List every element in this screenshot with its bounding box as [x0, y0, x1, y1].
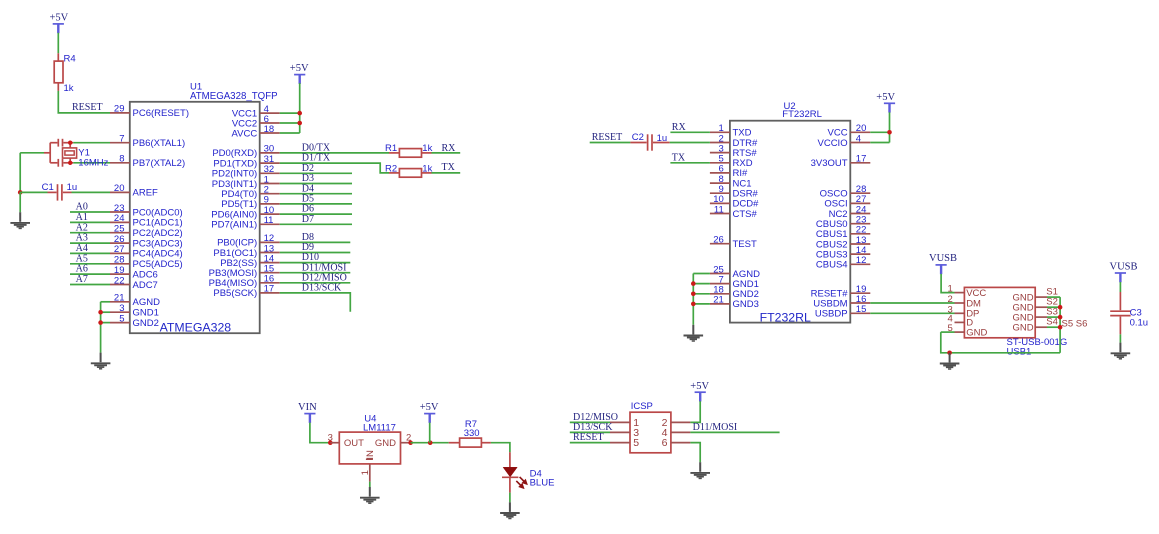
svg-text:BLUE: BLUE — [530, 477, 555, 488]
net label TX (U2) — [672, 152, 686, 163]
wire net D11/MOSI — [280, 272, 351, 274]
U2 pin 14 CBUS3 — [816, 245, 870, 261]
svg-text:5: 5 — [633, 437, 639, 449]
U1 pin 6 VCC2 — [232, 114, 280, 130]
svg-text:3: 3 — [119, 303, 124, 314]
USB1 pin 3 DP — [948, 304, 980, 319]
wire net D6 — [280, 213, 352, 215]
ICSP pins 3/4 — [610, 427, 690, 439]
net label D10 — [302, 252, 319, 263]
svg-text:23: 23 — [114, 203, 125, 214]
wire net A2 — [70, 232, 110, 234]
svg-text:1k: 1k — [422, 164, 432, 175]
wire RESET net R4 to PC6 — [58, 91, 110, 113]
U2 pin 12 CBUS4 — [816, 255, 870, 271]
ground (D4) — [500, 502, 520, 518]
junction GND2 — [98, 320, 103, 325]
wire USB1 GND pin — [941, 331, 955, 333]
svg-text:PB5(SCK): PB5(SCK) — [213, 288, 257, 299]
wire net D2 — [280, 172, 352, 174]
wire crystal gnd tap — [20, 152, 44, 154]
U4 pin 1 IN — [360, 464, 371, 482]
net label A1 — [76, 212, 88, 223]
wire net D11/MOSI (ICSP) — [690, 431, 779, 433]
net label RESET — [72, 102, 103, 113]
USB1 pin 2 DM — [948, 294, 982, 309]
svg-text:AREF: AREF — [133, 188, 159, 199]
net label D4 — [302, 183, 314, 194]
U1 pin 8 PB7(XTAL2) — [110, 154, 185, 170]
wire VCC U2 — [870, 131, 889, 133]
wire net A3 — [70, 242, 110, 244]
svg-text:C2: C2 — [632, 132, 644, 143]
U1 pin 7 PB6(XTAL1) — [110, 134, 185, 150]
svg-text:FT232RL: FT232RL — [782, 109, 822, 120]
net label D9 — [302, 242, 314, 253]
svg-text:GND: GND — [375, 438, 396, 449]
power VUSB (USB1) — [929, 253, 957, 274]
wire net A7 — [70, 284, 110, 286]
ground (U1) — [91, 353, 111, 369]
net label D1/TX — [302, 153, 331, 164]
wire net RX (U2 side) — [670, 131, 710, 133]
net label D11/MOSI — [302, 262, 347, 273]
svg-text:+5V: +5V — [876, 92, 895, 103]
wire shield bus vertical — [1059, 297, 1061, 353]
U1 pin 14 PB2(SS) — [220, 253, 279, 269]
svg-text:3V3OUT: 3V3OUT — [811, 158, 848, 169]
junction C1-gnd node — [18, 190, 23, 195]
ICSP pins 1/2 — [610, 417, 690, 429]
U1 pin 26 PC3(ADC3) — [110, 234, 183, 250]
junction U2 GND2 — [691, 292, 696, 297]
wire net D9 — [280, 252, 351, 254]
net label RX — [442, 143, 457, 154]
wire net A4 — [70, 252, 110, 254]
junction USB gnd — [947, 351, 952, 356]
svg-text:1k: 1k — [64, 83, 74, 94]
wire AVCC — [280, 132, 300, 134]
U4 pin 3 OUT — [328, 433, 340, 444]
svg-text:IN: IN — [365, 450, 376, 460]
U1 pin 24 PC1(ADC1) — [110, 213, 183, 229]
svg-text:ATMEGA328_TQFP: ATMEGA328_TQFP — [190, 91, 278, 102]
net label A0 — [76, 202, 88, 213]
wire U2 GND2 — [693, 293, 710, 295]
svg-text:11: 11 — [714, 204, 724, 215]
wire S3 to shield bus — [1047, 316, 1060, 318]
wire R7 to LED — [491, 443, 510, 453]
wire XTAL2 net — [73, 162, 110, 164]
svg-text:OUT: OUT — [344, 438, 364, 449]
U2 pin 1 TXD — [710, 123, 752, 139]
net label D13/SCK (ICSP) — [573, 422, 613, 433]
svg-text:RESET: RESET — [573, 432, 604, 443]
svg-text:R2: R2 — [385, 164, 397, 175]
U1 pin 27 PC4(ADC4) — [110, 244, 183, 260]
U2 pin 7 GND1 — [710, 274, 759, 290]
wire VCCIO U2 — [870, 142, 889, 144]
svg-text:AVCC: AVCC — [231, 128, 257, 139]
svg-text:RX: RX — [442, 143, 457, 154]
net label RESET (C2) — [592, 132, 623, 143]
wire net A6 — [70, 273, 110, 275]
wire net D7 — [280, 223, 352, 225]
svg-text:ATMEGA328: ATMEGA328 — [160, 321, 232, 335]
net label D12/MISO — [302, 272, 347, 283]
svg-text:R4: R4 — [64, 54, 76, 65]
wire net TX (U1 side) — [432, 172, 461, 174]
svg-text:D11/MOSI: D11/MOSI — [693, 422, 738, 433]
wire C1 to AREF — [72, 191, 111, 193]
U2 pin 23 CBUS0 — [816, 215, 870, 231]
resistor R7 330 — [449, 419, 491, 447]
wire net A0 — [70, 211, 110, 213]
svg-text:PB6(XTAL1): PB6(XTAL1) — [133, 138, 186, 149]
svg-text:CBUS4: CBUS4 — [816, 260, 848, 271]
svg-text:VCCIO: VCCIO — [818, 138, 848, 149]
junction U2 GND3 — [691, 302, 696, 307]
U1 pin 20 AREF — [110, 183, 158, 199]
wire net D3 — [280, 183, 352, 185]
net label D12/MISO — [573, 412, 618, 423]
svg-text:A2: A2 — [76, 222, 88, 233]
U2 pin 15 USBDP — [815, 304, 870, 320]
svg-text:GND3: GND3 — [733, 299, 759, 310]
svg-text:GND2: GND2 — [133, 318, 159, 329]
net label D11/MOSI — [693, 422, 738, 433]
USB1 shield pin S4 — [1012, 317, 1057, 334]
junction U2 GND1 — [691, 281, 696, 286]
svg-text:TX: TX — [672, 152, 686, 163]
junction VCC2 — [297, 121, 302, 126]
svg-text:+5V: +5V — [50, 13, 69, 24]
wire S2 to shield bus — [1047, 306, 1060, 308]
wire S4 to shield bus — [1047, 326, 1060, 328]
svg-text:6: 6 — [662, 437, 668, 449]
U1 pin 21 AGND — [110, 293, 160, 309]
wire +5V vertical U1 — [299, 83, 301, 133]
wire net RX (U1 side) — [432, 152, 461, 154]
capacitor C1 1u — [42, 182, 78, 200]
svg-text:ICSP: ICSP — [631, 401, 653, 412]
capacitor C3 0.1u — [1110, 292, 1148, 334]
wire gnd bus U2 — [692, 274, 694, 325]
wire XTAL1 net — [73, 142, 110, 144]
svg-text:USBDP: USBDP — [815, 309, 848, 320]
svg-text:PC6(RESET): PC6(RESET) — [133, 108, 189, 119]
svg-text:TX: TX — [442, 162, 456, 173]
U1 pin 2 PD4(T0) — [221, 185, 279, 201]
wire GND1 — [101, 311, 110, 313]
svg-text:8: 8 — [119, 154, 124, 165]
junction U4 pin3 — [328, 440, 333, 445]
IC U1 value label ATMEGA328 — [160, 321, 232, 335]
wire net D10 — [280, 262, 351, 264]
junction U4 pin2 — [408, 440, 413, 445]
wire S1 to shield bus — [1047, 296, 1060, 298]
regulator U4 LM1117 box — [339, 413, 400, 464]
junction S2 — [1058, 305, 1063, 310]
wire C2 to DTR# — [670, 142, 710, 144]
wire net D4 — [280, 193, 352, 195]
U4 pin 2 GND — [401, 433, 412, 444]
wire net D12/MISO — [280, 282, 351, 284]
wire gnd to C1 — [20, 191, 47, 193]
U1 pin 25 PC2(ADC2) — [110, 224, 183, 240]
junction VCC1 — [297, 111, 302, 116]
junction U2 VCC — [887, 130, 892, 135]
USB1 shield pin S3 — [1012, 307, 1057, 324]
resistor R1 1k — [385, 143, 433, 157]
wire net D13/SCK (ICSP) — [570, 431, 610, 433]
net label D13/SCK — [302, 283, 342, 294]
U1 pin 19 ADC6 — [110, 265, 158, 281]
svg-text:S4: S4 — [1046, 317, 1058, 328]
power +5V (U1 VCC) — [290, 63, 309, 84]
wire ICSP pin6 to gnd — [690, 443, 700, 463]
ground (crystal/C1) — [10, 212, 30, 228]
resistor R2 1k — [385, 164, 433, 178]
svg-text:12: 12 — [856, 255, 867, 266]
U2 pin 3 RTS# — [710, 143, 757, 159]
svg-text:5: 5 — [119, 313, 124, 324]
U1 pin 5 GND2 — [110, 313, 159, 329]
wire U2 GND1 — [693, 283, 710, 285]
U2 pin 28 OSCO — [820, 184, 871, 200]
svg-text:GND1: GND1 — [133, 308, 159, 319]
svg-text:17: 17 — [264, 284, 275, 295]
svg-text:RESET: RESET — [592, 132, 623, 143]
svg-text:18: 18 — [264, 124, 275, 135]
U1 pin 3 GND1 — [110, 303, 159, 319]
svg-text:AGND: AGND — [133, 297, 161, 308]
USB1 pin 5 GND — [948, 323, 988, 338]
U1 pin 11 PD7(AIN1) — [211, 215, 279, 231]
U1 pin 18 AVCC — [231, 124, 279, 140]
ground (U2) — [684, 325, 704, 341]
wire U2 AGND — [693, 273, 710, 275]
svg-text:22: 22 — [114, 275, 125, 286]
svg-text:21: 21 — [713, 295, 724, 306]
U2 pin 11 CTS# — [710, 204, 758, 220]
U2 pin 2 DTR# — [710, 133, 758, 149]
power +5V (ICSP) — [690, 381, 709, 402]
USB1 shield pin S2 — [1012, 297, 1057, 314]
ground (USB1) — [940, 353, 960, 369]
svg-text:20: 20 — [114, 183, 125, 194]
svg-text:1: 1 — [360, 470, 371, 475]
wire AGND — [101, 301, 110, 303]
net label TX — [442, 162, 456, 173]
net label D2 — [302, 163, 314, 174]
U1 pin 15 PB3(MOSI) — [209, 264, 280, 280]
net label D5 — [302, 194, 314, 205]
svg-text:VCC: VCC — [966, 288, 986, 299]
svg-text:27: 27 — [114, 244, 125, 255]
net label RESET (ICSP) — [573, 432, 604, 443]
svg-text:15: 15 — [856, 304, 867, 315]
svg-text:A4: A4 — [76, 243, 88, 254]
U2 pin 25 AGND — [710, 264, 760, 280]
U2 pin 6 RI# — [710, 164, 748, 180]
U2 pin 27 OSCI — [824, 194, 870, 210]
U1 pin 10 PD6(AIN0) — [211, 205, 279, 221]
wire VUSB to USB1 VCC — [941, 274, 954, 293]
svg-text:A6: A6 — [76, 264, 88, 275]
ICSP pins 5/6 — [610, 437, 690, 449]
power +5V (R4 top) — [50, 13, 69, 34]
junction GND1 — [98, 310, 103, 315]
wire net USBDP — [870, 312, 954, 314]
wire net A5 — [70, 263, 110, 265]
svg-text:LM1117: LM1117 — [363, 423, 396, 434]
net label D6 — [302, 204, 314, 215]
wire U2 GND3 — [693, 303, 710, 305]
U2 pin 4 VCCIO — [818, 133, 871, 149]
U1 pin 17 PB5(SCK) — [213, 284, 279, 300]
wire VUSB to C3 — [1119, 282, 1121, 292]
svg-text:CTS#: CTS# — [733, 209, 758, 220]
svg-text:ADC7: ADC7 — [133, 280, 158, 291]
svg-text:+5V: +5V — [690, 381, 709, 392]
capacitor C2 1u — [630, 132, 669, 151]
USB1 pin 1 VCC — [948, 284, 987, 299]
wire VCC1 — [280, 112, 300, 114]
LED D4 BLUE — [502, 452, 554, 492]
ground (U4) — [360, 487, 380, 503]
svg-text:PC2(ADC2): PC2(ADC2) — [133, 228, 183, 239]
svg-text:D7: D7 — [302, 214, 314, 225]
wire net TX (U2 side) — [670, 162, 710, 164]
crystal Y1 16MHz — [44, 139, 109, 169]
wire net D8 — [280, 241, 351, 243]
U2 pin 21 GND3 — [710, 295, 759, 311]
svg-text:4: 4 — [856, 133, 861, 144]
IC U2 value label FT232RL — [760, 311, 811, 325]
wire net RESET to C2 — [590, 142, 631, 144]
svg-text:330: 330 — [464, 428, 480, 439]
wire net D13/SCK — [280, 293, 351, 312]
net label D0/TX — [302, 143, 331, 154]
U1 pin 28 PC5(ADC5) — [110, 255, 183, 271]
svg-text:GND: GND — [1012, 323, 1033, 334]
wire U4 pin1 to gnd — [369, 482, 371, 487]
U1 pin 22 ADC7 — [110, 275, 158, 291]
IC U2 FT232RL box — [730, 101, 850, 322]
U2 pin 13 CBUS2 — [816, 235, 870, 251]
svg-text:PC4(ADC4): PC4(ADC4) — [133, 249, 183, 260]
U1 pin 13 PB1(OC1) — [213, 243, 279, 258]
svg-text:S5 S6: S5 S6 — [1062, 318, 1088, 329]
net label A2 — [76, 222, 88, 233]
connector USB1 ST-USB-001G box — [964, 287, 1067, 357]
U1 pin 4 VCC1 — [232, 104, 280, 120]
wire net RESET (ICSP) — [570, 442, 610, 444]
wire net USBDM — [870, 302, 954, 304]
svg-text:RX: RX — [672, 122, 687, 133]
svg-text:VUSB: VUSB — [1110, 261, 1138, 272]
connector ICSP box — [630, 401, 671, 453]
USB1 pin 4 D — [948, 313, 974, 328]
wire +5V rail to R7 — [411, 442, 449, 444]
U2 pin 10 DCD# — [710, 194, 759, 210]
wire gnd vertical left — [19, 153, 21, 193]
U2 pin 16 USBDM — [813, 294, 870, 310]
U2 pin 17 3V3OUT — [811, 154, 871, 170]
power +5V (U2 VCC) — [876, 92, 895, 113]
net label D7 — [302, 214, 314, 225]
wire gnd bus U1 — [100, 302, 102, 353]
U1 pin 30 PD0(RXD) — [212, 144, 279, 160]
svg-text:3: 3 — [328, 433, 333, 444]
svg-text:D13/SCK: D13/SCK — [302, 283, 342, 294]
USB1 shield pins S5 S6 label — [1062, 318, 1088, 329]
wire GND2 — [101, 322, 110, 324]
ground (C3) — [1111, 343, 1131, 359]
net label RX (U2) — [672, 122, 687, 133]
net label A5 — [76, 253, 88, 264]
svg-text:A7: A7 — [76, 274, 88, 285]
net label A3 — [76, 233, 88, 244]
wire net D1/TX — [280, 163, 389, 173]
svg-text:7: 7 — [119, 134, 124, 145]
U2 pin 20 VCC — [828, 123, 871, 139]
svg-text:PC0(ADC0): PC0(ADC0) — [133, 207, 183, 218]
svg-text:RESET: RESET — [72, 102, 103, 113]
svg-text:VIN: VIN — [298, 402, 317, 413]
wire +5V to ICSP pin2 — [690, 401, 700, 422]
svg-text:21: 21 — [114, 293, 125, 304]
U2 pin 24 NC2 — [829, 204, 871, 220]
svg-text:VUSB: VUSB — [929, 253, 957, 264]
wire LED to ground — [509, 493, 511, 503]
wire VCC2 — [280, 122, 300, 124]
U1 pin 12 PB0(ICP) — [217, 233, 280, 249]
junction +5V drop — [428, 440, 433, 445]
wire net D0/TX — [280, 152, 389, 154]
power VIN — [298, 402, 317, 423]
wire net D5 — [280, 203, 352, 205]
resistor R4 — [54, 53, 75, 94]
U1 pin 1 PD3(INT1) — [212, 174, 280, 190]
wire net D12/MISO (ICSP) — [570, 421, 610, 423]
svg-text:26: 26 — [713, 235, 724, 246]
svg-text:C1: C1 — [42, 182, 54, 193]
wire +5V vertical U2 — [889, 112, 891, 142]
wire to ground — [19, 192, 21, 212]
svg-text:17: 17 — [856, 154, 867, 165]
U1 pin 31 PD1(TXD) — [213, 154, 279, 170]
U1 pin 32 PD2(INT0) — [212, 164, 280, 180]
U1 pin 23 PC0(ADC0) — [110, 203, 183, 219]
svg-text:0.1u: 0.1u — [1130, 318, 1149, 329]
wire +5V drop U4 — [429, 423, 431, 443]
net label D3 — [302, 173, 314, 184]
IC U1 ATMEGA328 box — [130, 81, 278, 333]
U2 pin 19 RESET# — [811, 284, 871, 300]
svg-text:+5V: +5V — [290, 63, 309, 74]
wire C3 to ground — [1119, 334, 1121, 342]
U1 pin 16 PB4(MISO) — [209, 274, 280, 290]
svg-text:PD7(AIN1): PD7(AIN1) — [211, 220, 257, 231]
svg-text:R1: R1 — [385, 143, 397, 154]
svg-text:GND: GND — [966, 327, 987, 338]
power +5V (U4) — [420, 402, 439, 423]
svg-text:+5V: +5V — [420, 402, 439, 413]
U2 pin 5 RXD — [710, 154, 753, 170]
svg-text:ADC6: ADC6 — [133, 269, 158, 280]
